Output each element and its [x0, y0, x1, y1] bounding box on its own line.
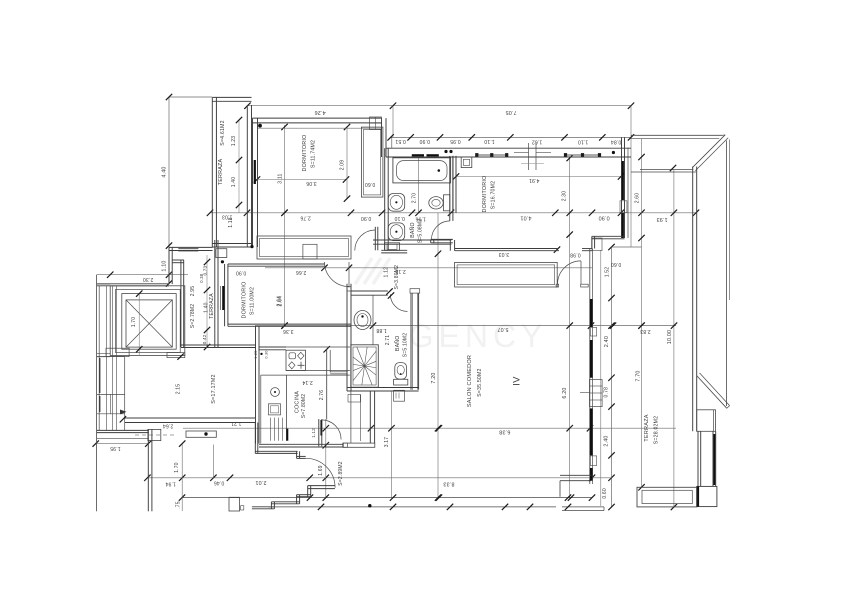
svg-text:1.23: 1.23	[231, 136, 237, 147]
svg-text:DORMITORIO: DORMITORIO	[482, 176, 488, 213]
svg-text:1.10: 1.10	[162, 260, 168, 271]
svg-text:2.14: 2.14	[302, 379, 313, 385]
svg-text:4.91: 4.91	[529, 177, 540, 183]
svg-text:0.60: 0.60	[602, 488, 608, 499]
svg-text:3.36: 3.36	[283, 328, 294, 334]
svg-text:SALON COMEDOR: SALON COMEDOR	[467, 355, 473, 407]
svg-text:1.70: 1.70	[131, 317, 137, 328]
svg-text:3.17: 3.17	[384, 437, 390, 448]
svg-text:1.94: 1.94	[165, 480, 176, 486]
svg-text:0.51: 0.51	[395, 138, 406, 144]
svg-text:0.84: 0.84	[611, 138, 622, 144]
svg-text:GENCY: GENCY	[409, 318, 548, 354]
svg-text:S=2.89M2: S=2.89M2	[338, 461, 344, 486]
svg-text:0.60: 0.60	[611, 261, 622, 267]
svg-text:2.70: 2.70	[411, 193, 417, 204]
svg-text:1.40: 1.40	[231, 177, 237, 188]
svg-text:TERRAZA: TERRAZA	[209, 293, 215, 319]
svg-text:0.46: 0.46	[214, 480, 225, 486]
svg-text:S=11.74M2: S=11.74M2	[311, 140, 317, 168]
svg-text:3.03: 3.03	[499, 251, 510, 257]
svg-text:2.83: 2.83	[640, 328, 651, 334]
svg-text:0.98: 0.98	[570, 252, 581, 258]
svg-text:0.90: 0.90	[361, 215, 372, 221]
svg-text:1.69: 1.69	[318, 465, 324, 476]
svg-text:2.15: 2.15	[176, 384, 182, 395]
svg-text:6.20: 6.20	[562, 387, 568, 398]
svg-text:2.76: 2.76	[300, 214, 311, 220]
svg-text:2.66: 2.66	[296, 269, 307, 275]
svg-text:1.62: 1.62	[532, 138, 543, 144]
svg-text:S=3.80M2: S=3.80M2	[394, 265, 400, 290]
svg-text:8.33: 8.33	[443, 480, 454, 486]
svg-text:2.30: 2.30	[562, 191, 568, 202]
svg-text:0.10: 0.10	[394, 215, 405, 221]
svg-text:10.00: 10.00	[667, 330, 673, 345]
svg-text:7.70: 7.70	[636, 370, 642, 381]
svg-text:1.93: 1.93	[656, 216, 667, 222]
svg-text:1.12: 1.12	[311, 428, 316, 438]
svg-text:1.12: 1.12	[384, 267, 390, 278]
svg-text:S=17.17M2: S=17.17M2	[211, 374, 217, 404]
svg-text:3.06: 3.06	[306, 180, 317, 186]
svg-text:TERRAZA: TERRAZA	[218, 159, 224, 186]
svg-text:0.78: 0.78	[603, 387, 609, 398]
svg-text:.75: .75	[176, 501, 182, 509]
svg-text:0.42: 0.42	[202, 334, 207, 344]
svg-text:1.70: 1.70	[174, 462, 180, 473]
svg-text:1.18: 1.18	[228, 217, 234, 228]
svg-text:0.90: 0.90	[236, 270, 247, 276]
svg-text:S=4.61M2: S=4.61M2	[220, 120, 226, 145]
svg-text:2.71: 2.71	[385, 335, 391, 346]
svg-text:S=28.02M2: S=28.02M2	[654, 416, 660, 444]
svg-text:4.01: 4.01	[520, 215, 531, 221]
svg-text:2.60: 2.60	[635, 193, 641, 204]
svg-text:TERRAZA: TERRAZA	[644, 414, 650, 442]
svg-text:2.95: 2.95	[190, 286, 196, 297]
svg-text:3.11: 3.11	[278, 174, 284, 184]
svg-text:1.52: 1.52	[605, 267, 611, 278]
svg-text:1.95: 1.95	[110, 445, 121, 451]
svg-text:BAÑO: BAÑO	[394, 336, 401, 352]
svg-text:DORMITORIO: DORMITORIO	[241, 282, 247, 319]
svg-text:1.10: 1.10	[578, 138, 589, 144]
svg-text:DORMITORIO: DORMITORIO	[302, 135, 308, 172]
svg-text:IV: IV	[512, 376, 523, 386]
svg-text:S=11.00M2: S=11.00M2	[249, 287, 255, 315]
svg-text:2.09: 2.09	[340, 160, 346, 171]
svg-text:5.07: 5.07	[497, 326, 508, 332]
svg-text:4.26: 4.26	[314, 109, 325, 115]
svg-text:0.60: 0.60	[365, 181, 376, 187]
svg-text:1.88: 1.88	[376, 327, 387, 333]
svg-text:2.64: 2.64	[163, 423, 174, 429]
svg-text:2.64: 2.64	[276, 296, 282, 307]
svg-text:2.76: 2.76	[319, 390, 325, 401]
svg-text:4.40: 4.40	[162, 166, 168, 177]
svg-text:7.20: 7.20	[431, 372, 437, 383]
svg-text:0.90: 0.90	[598, 215, 609, 221]
svg-text:2.01: 2.01	[255, 479, 266, 485]
svg-text:COCINA: COCINA	[294, 391, 300, 413]
svg-text:S=35.50M2: S=35.50M2	[477, 368, 483, 396]
svg-text:0.90: 0.90	[419, 138, 430, 144]
svg-text:S=5.10M2: S=5.10M2	[402, 333, 408, 358]
svg-text:1.25: 1.25	[254, 350, 258, 358]
svg-text:S=2.78M2: S=2.78M2	[190, 304, 196, 329]
svg-text:2.40: 2.40	[603, 435, 609, 446]
svg-text:0.30: 0.30	[265, 350, 269, 358]
svg-text:BAÑO: BAÑO	[409, 222, 416, 238]
svg-text:1.10: 1.10	[484, 138, 495, 144]
svg-text:2.40: 2.40	[604, 336, 610, 347]
svg-text:6.38: 6.38	[499, 428, 510, 434]
svg-text:S=7.80M2: S=7.80M2	[301, 394, 307, 419]
svg-text:1.21: 1.21	[231, 420, 242, 426]
svg-text:2.30: 2.30	[143, 276, 154, 282]
svg-text:S=16.70M2: S=16.70M2	[491, 181, 497, 209]
svg-text:0.38: 0.38	[199, 273, 204, 282]
svg-text:7.05: 7.05	[505, 109, 516, 115]
svg-text:0.95: 0.95	[450, 138, 461, 144]
